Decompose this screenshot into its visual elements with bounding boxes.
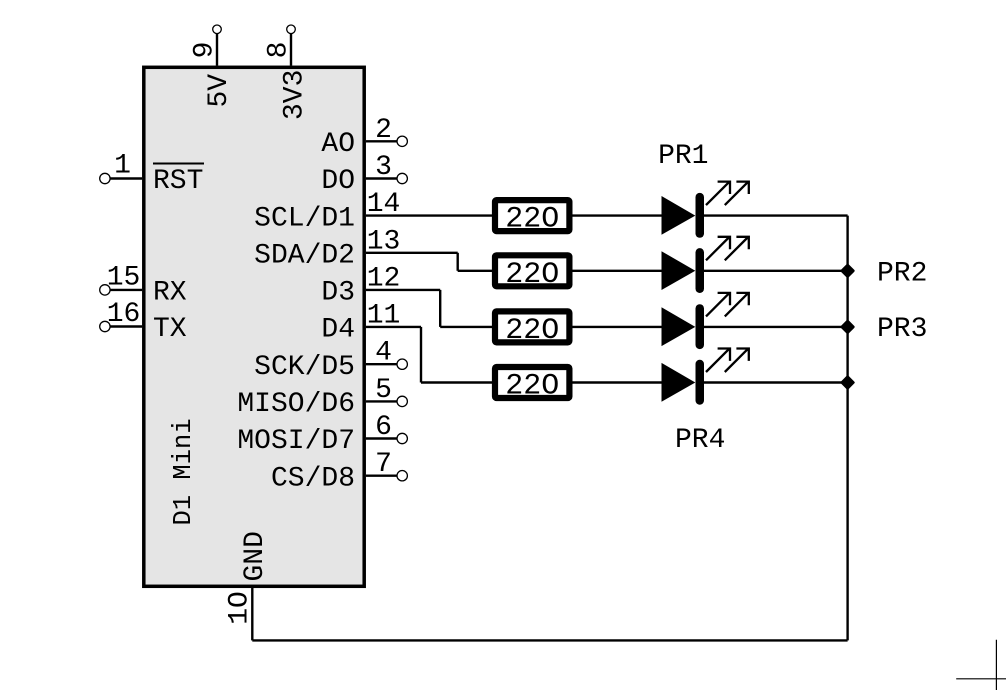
LED PR2 anode triangle (662, 251, 696, 290)
wire jog to R3 (440, 326, 495, 328)
resistor R1 body (495, 200, 569, 231)
LED PR1 light arrow 2 (725, 182, 749, 206)
junction node PR4/bus (842, 377, 854, 389)
pin 3 D0 wire (366, 177, 397, 179)
pin 5 terminal circle (397, 396, 407, 406)
wire pin 12 horizontal (366, 289, 440, 291)
pin 5 MISO/D6 wire (366, 400, 397, 402)
LED PR2 cathode bar (696, 248, 705, 293)
resistor R2 body (495, 255, 569, 286)
pin 8 terminal circle (287, 25, 296, 34)
wire R3 to LED PR3 (572, 326, 661, 328)
pin 7 terminal circle (397, 471, 407, 481)
pin 6 MOSI/D7 wire (366, 437, 397, 439)
wire LED PR4 to bus (704, 381, 848, 383)
LED PR1 cathode bar (696, 193, 705, 238)
svg-text:22O: 22O (505, 258, 559, 292)
RST overline (153, 163, 204, 165)
wire pin 11 horizontal (366, 326, 421, 328)
svg-text:TX: TX (153, 314, 187, 345)
wire R4 to LED PR4 (572, 381, 661, 383)
wire LED PR3 to bus (704, 326, 848, 328)
svg-text:D3: D3 (321, 278, 355, 309)
svg-text:AO: AO (321, 129, 355, 160)
svg-text:8: 8 (264, 42, 295, 59)
pin 2 terminal circle (397, 136, 407, 146)
svg-text:3V3: 3V3 (280, 70, 311, 120)
wire R2 to LED PR2 (572, 270, 661, 272)
LED PR1 anode triangle (662, 196, 696, 235)
pin 6 terminal circle (397, 433, 407, 443)
wire pin 12 vertical jog (439, 290, 441, 327)
pin 9 terminal circle (213, 25, 222, 34)
svg-text:5: 5 (375, 375, 392, 406)
svg-text:SCK/D5: SCK/D5 (254, 352, 355, 383)
LED PR4 light arrow 2 (725, 349, 749, 373)
wire pin 13 vertical jog (457, 253, 459, 271)
resistor R3 body (495, 311, 569, 342)
svg-text:SDA/D2: SDA/D2 (254, 241, 355, 272)
pin 8 3V3 wire (290, 34, 292, 66)
svg-text:5V: 5V (204, 74, 235, 108)
svg-text:DO: DO (321, 166, 355, 197)
pin 16 terminal circle (100, 321, 110, 331)
svg-text:15: 15 (107, 262, 141, 293)
pin 10 GND wire down (251, 588, 253, 640)
LED PR4 anode triangle (662, 363, 696, 402)
LED PR2 light arrow 1 (706, 237, 730, 260)
svg-text:7: 7 (375, 449, 392, 480)
LED PR3 anode triangle (662, 307, 696, 346)
LED PR4 cathode bar (696, 360, 705, 405)
svg-text:D1 Mini: D1 Mini (169, 418, 198, 525)
svg-text:PR1: PR1 (658, 141, 708, 172)
svg-text:3: 3 (375, 152, 392, 183)
junction node PR2/bus (842, 265, 854, 277)
LED PR2 light arrow 2 (725, 237, 749, 260)
cathode bus vertical wire (846, 216, 848, 641)
svg-text:MISO/D6: MISO/D6 (237, 389, 355, 420)
svg-text:4: 4 (375, 338, 392, 369)
svg-text:9: 9 (190, 42, 221, 59)
wire jog to R2 (458, 270, 495, 272)
svg-text:SCL/D1: SCL/D1 (254, 203, 355, 234)
junction node PR3/bus (842, 321, 854, 333)
svg-text:16: 16 (107, 299, 141, 330)
svg-text:GND: GND (240, 531, 271, 581)
svg-text:RX: RX (153, 278, 187, 309)
wire pin 13 horizontal (366, 252, 458, 254)
svg-text:2: 2 (375, 115, 392, 146)
wire jog to R4 (421, 381, 495, 383)
LED PR3 light arrow 2 (725, 293, 749, 317)
svg-text:MOSI/D7: MOSI/D7 (237, 426, 355, 457)
svg-text:CS/D8: CS/D8 (271, 463, 355, 494)
svg-text:22O: 22O (505, 203, 559, 237)
pin 3 terminal circle (397, 173, 407, 183)
svg-text:22O: 22O (505, 370, 559, 404)
LED PR3 cathode bar (696, 304, 705, 349)
IC U1 "D1 Mini" body (144, 67, 364, 586)
LED PR1 light arrow 1 (706, 182, 730, 206)
pin 1 RST wire (110, 177, 142, 179)
pin 9 5V wire (216, 34, 218, 66)
svg-text:22O: 22O (505, 314, 559, 348)
pin 16 TX wire (110, 325, 142, 327)
resistor R4 body (495, 367, 569, 398)
wire pin 11 vertical jog (420, 327, 422, 383)
GND return wire to bus (252, 639, 847, 641)
svg-text:PR2: PR2 (877, 258, 927, 289)
LED PR3 light arrow 1 (706, 293, 730, 317)
svg-text:PR3: PR3 (877, 314, 927, 345)
pin 1 terminal circle (100, 173, 110, 183)
svg-text:D4: D4 (321, 315, 355, 346)
sheet corner crosshair (956, 640, 1006, 690)
pin 15 RX wire (110, 289, 142, 291)
pin 15 terminal circle (100, 285, 110, 295)
svg-text:PR4: PR4 (675, 425, 725, 456)
svg-text:1O: 1O (225, 591, 256, 625)
pin 4 terminal circle (397, 359, 407, 369)
pin 4 SCK/D5 wire (366, 363, 397, 365)
pin 2 A0 wire (366, 140, 397, 142)
svg-text:RST: RST (153, 166, 203, 197)
svg-text:6: 6 (375, 412, 392, 443)
LED PR4 light arrow 1 (706, 349, 730, 373)
wire LED PR2 to bus (704, 270, 848, 272)
wire R1 to LED PR1 (572, 214, 661, 216)
wire LED PR1 to bus (704, 214, 848, 216)
pin 7 CS/D8 wire (366, 475, 397, 477)
wire pin 14 to R1 (366, 214, 495, 216)
svg-text:1: 1 (114, 151, 131, 182)
